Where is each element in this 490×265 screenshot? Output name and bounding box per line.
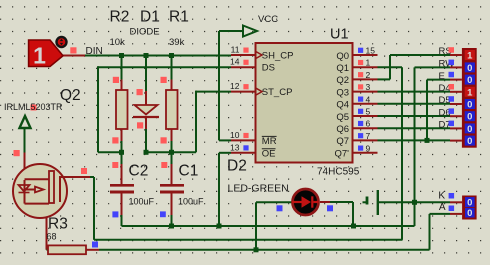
svg-text:Q1: Q1: [336, 63, 349, 74]
wire Q2 gate: [60, 176, 90, 178]
svg-text:K: K: [438, 191, 445, 202]
pin 5 Q5: [353, 115, 378, 117]
svg-text:0: 0: [467, 100, 472, 111]
pin 1 Q1: [353, 66, 378, 68]
wire Q5 to D6 probe row: [378, 115, 451, 117]
state square R1 bottom: [161, 137, 167, 143]
svg-text:SH_CP: SH_CP: [262, 51, 294, 62]
probe value 0 row y=128.4: [450, 127, 462, 129]
svg-text:3: 3: [366, 82, 371, 92]
pin 4 Q4: [353, 103, 378, 105]
resistor R1 39k: [171, 56, 173, 80]
svg-text:C2: C2: [129, 163, 149, 180]
wire gate rail y=236.6: [94, 239, 403, 241]
wire E net vertical x=427 down to Q7 row: [427, 79, 450, 81]
node junction LED anode on bottom rail: [254, 247, 259, 252]
diode D1: [145, 56, 147, 92]
svg-text:DS: DS: [262, 63, 275, 74]
wire rail1 up to K junction x=415: [414, 202, 416, 226]
pin 10 MR: [231, 139, 256, 141]
wire RW net vertical x=414.5 from row 67.4 down: [414, 67, 416, 202]
svg-text:DIN: DIN: [86, 46, 103, 57]
svg-text:13: 13: [230, 142, 240, 152]
power VCC arrow top: [243, 26, 257, 37]
svg-text:Q2: Q2: [60, 87, 81, 104]
wire Q3 to D4 probe row: [378, 91, 451, 93]
wire DIN net row y=55.5 from generator to SH_CP: [63, 55, 85, 57]
svg-text:4: 4: [366, 94, 371, 104]
wire LED cathode to rail: [330, 201, 353, 203]
wire Q4 to D5 probe row: [378, 103, 451, 105]
op-amp U1 74HC595 chip body: [256, 43, 353, 163]
wire battery to K row: [379, 201, 415, 203]
probe value 0 row y=79.6: [450, 79, 462, 81]
node junction D1 top: [144, 53, 149, 58]
wire bottom rail R3/A y=249.8: [99, 249, 430, 251]
svg-text:39k: 39k: [169, 37, 185, 48]
wire Q1 to gate rail vertical x=402: [401, 67, 403, 240]
pin 3 Q3: [353, 91, 378, 93]
svg-text:0: 0: [467, 63, 472, 74]
svg-text:10: 10: [230, 130, 240, 140]
capacitor C2 100uF: [121, 152, 123, 164]
state square R3 right: [92, 242, 98, 248]
node junction R2 top: [119, 53, 124, 58]
wire Q2 drain down to R3: [46, 204, 48, 250]
state square C1 top: [161, 162, 167, 168]
state square C1 bottom: [160, 211, 166, 217]
resistor R3 68: [48, 245, 86, 254]
node junction K row x=414.5: [412, 200, 417, 205]
svg-text:1: 1: [467, 51, 473, 62]
resistor R2 10k: [121, 56, 123, 80]
svg-text:R3: R3: [48, 216, 68, 233]
transistor Q2 IRLML5203TR P-MOSFET: [13, 164, 67, 218]
probe value 0 row y=104: [450, 103, 462, 105]
wire LED anode vertical x=252.5: [255, 202, 257, 250]
logic probes column (RS RW E D4 D5 D6 D7): [462, 48, 477, 148]
svg-text:1: 1: [467, 87, 473, 98]
state square R1 top: [161, 77, 167, 83]
svg-text:Q6: Q6: [336, 124, 349, 135]
node junction R1 bottom / C1 top: [169, 150, 174, 155]
state square Q2 gate: [81, 168, 87, 174]
pin 14 DS: [231, 66, 256, 68]
svg-text:100uF: 100uF: [178, 197, 204, 207]
svg-text:MR: MR: [262, 136, 277, 147]
wire ground rail 1 y=225.5: [122, 225, 415, 227]
pin 7 Q7: [353, 139, 378, 141]
svg-text:9: 9: [366, 143, 371, 153]
probe value 0 row y=67.4: [450, 66, 462, 68]
svg-text:DIODE: DIODE: [130, 27, 160, 38]
logic state generator DIN value 1: [29, 40, 63, 67]
svg-text:D2: D2: [227, 158, 247, 175]
power VCC arrow above Q2: [20, 116, 31, 128]
svg-text:0: 0: [467, 75, 472, 86]
node junction Q7 row E tap: [425, 138, 430, 143]
svg-text:5: 5: [366, 107, 371, 117]
svg-text:Q7: Q7: [336, 136, 349, 147]
svg-text:E: E: [439, 71, 445, 82]
wire Q2(pin2) up to RS row vertical x=390: [378, 78, 391, 80]
svg-text:VCC: VCC: [258, 14, 278, 25]
svg-text:14: 14: [230, 57, 240, 67]
svg-text:1: 1: [366, 58, 371, 68]
state square R2 bottom: [112, 137, 118, 143]
svg-text:0: 0: [467, 136, 472, 147]
state square C2 bottom: [112, 211, 118, 217]
svg-text:R1: R1: [169, 9, 189, 26]
wire ST_CP net: corner x=196 down to y=151.5: [196, 91, 231, 93]
svg-text:Q2: Q2: [336, 75, 349, 86]
svg-text:Q3: Q3: [336, 87, 349, 98]
svg-text:ST_CP: ST_CP: [262, 87, 293, 98]
state square Q2 source: [14, 150, 20, 156]
state square VCC top: [31, 105, 37, 111]
svg-text:7: 7: [366, 131, 371, 141]
svg-text:Q0: Q0: [336, 51, 349, 62]
svg-text:0: 0: [467, 124, 472, 135]
node junction R2 bottom / C2 top: [119, 150, 124, 155]
wire A net vertical x=429.5 up to A row: [429, 214, 431, 250]
svg-text:R2: R2: [110, 9, 130, 26]
pin 11 SH_CP: [231, 54, 256, 56]
svg-text:0: 0: [467, 208, 472, 219]
svg-text:OE: OE: [262, 148, 276, 159]
svg-text:68: 68: [47, 232, 57, 242]
capacitor C1 100uF: [171, 152, 173, 164]
state square R2 top: [113, 77, 119, 83]
svg-text:LED-GREEN: LED-GREEN: [228, 183, 289, 195]
node junction C1 bottom on rail: [169, 224, 174, 229]
svg-text:U1: U1: [330, 27, 349, 43]
svg-text:IRLML5203TR: IRLML5203TR: [4, 102, 63, 112]
battery cell: [363, 201, 367, 203]
state square LED left: [277, 205, 283, 211]
svg-text:74HC595: 74HC595: [317, 167, 360, 178]
wire Q6 to D7 probe row: [378, 127, 451, 129]
pin 13 OE: [231, 152, 256, 154]
pin 2 Q2: [353, 78, 378, 80]
wire Q7 to probe8 row: [378, 139, 451, 141]
svg-text:2: 2: [366, 70, 371, 80]
pin 15 Q0: [353, 54, 378, 56]
svg-text:6: 6: [366, 119, 371, 129]
pin 12 ST_CP: [231, 91, 256, 93]
svg-text:D1: D1: [140, 9, 160, 26]
pin 6 Q6: [353, 127, 378, 129]
node junction OE on rail: [217, 224, 222, 229]
svg-text:A: A: [439, 202, 446, 213]
svg-text:11: 11: [231, 45, 240, 55]
pin 9 Q7': [353, 152, 378, 154]
toggle button icon: [57, 37, 67, 47]
svg-text:0: 0: [467, 197, 472, 208]
svg-text:C1: C1: [179, 163, 199, 180]
state square C2 top: [112, 162, 118, 168]
node junction LED cathode on rail: [351, 224, 356, 229]
node junction R1 top: [169, 53, 174, 58]
wire DS net: corner x=98 down to y=151.5: [98, 66, 231, 68]
svg-text:10k: 10k: [110, 37, 126, 48]
state square LED right: [327, 205, 333, 211]
svg-text:Q4: Q4: [336, 100, 349, 111]
svg-text:12: 12: [230, 81, 240, 91]
state square D1 bottom: [137, 122, 143, 128]
svg-text:15: 15: [366, 46, 376, 56]
svg-text:0: 0: [467, 112, 472, 123]
svg-text:100uF: 100uF: [129, 197, 155, 207]
svg-text:Q5: Q5: [336, 112, 349, 123]
wire OE to ground rail: vertical x=219: [219, 152, 231, 154]
wire VCC to MR: vertical x=219: [219, 30, 243, 32]
probe value 1 row y=55: [450, 54, 462, 56]
probe value 0 row y=140.6: [450, 140, 462, 142]
state square D1 top: [137, 89, 143, 95]
svg-text:Q7': Q7': [335, 149, 350, 160]
svg-text:1: 1: [33, 43, 46, 69]
probe value 1 row y=91.8: [450, 91, 462, 93]
probe value 0 row y=116.2: [450, 115, 462, 117]
state square DIN: [70, 47, 76, 53]
